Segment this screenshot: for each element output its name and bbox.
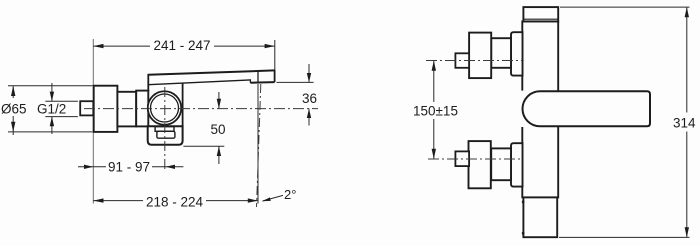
dim 150+-15: [433, 61, 435, 103]
lower body block left view: [148, 126, 183, 144]
text 241-247: [150, 37, 214, 51]
bottom flange: [469, 141, 491, 188]
top flange: [469, 33, 491, 79]
dim G1/2 arrows: [51, 83, 53, 101]
2 degree tilted axis line: [257, 84, 261, 207]
bottom inlet centerline: [428, 158, 522, 160]
inlet nipple G1/2 left view: [80, 101, 93, 115]
svg-text:G1/2: G1/2: [37, 102, 66, 117]
svg-text:241 - 247: 241 - 247: [153, 38, 210, 53]
spout outlet lip step: [249, 79, 251, 83]
spout tip right edge: [274, 70, 276, 83]
dim 36 extension line: [277, 81, 314, 83]
bottom connector: [491, 148, 511, 180]
top boss: [511, 32, 523, 75]
top connector: [491, 38, 511, 68]
svg-text:91 - 97: 91 - 97: [108, 160, 150, 175]
foot tab bottom: [522, 232, 524, 235]
horizontal centerline left view: [84, 108, 318, 110]
bottom foot: [523, 197, 557, 237]
dim O65 dimension line + arrows: [12, 86, 14, 98]
bottom nipple: [455, 151, 469, 166]
dim 50 extension line: [183, 145, 224, 147]
dim 50 arrows: [218, 92, 220, 109]
dim 241-247 arrows: [93, 44, 274, 48]
top cap: [523, 7, 558, 21]
connector sleeve left view: [117, 92, 136, 127]
vertical centerline of handle: [164, 87, 166, 171]
dim 36 arrows: [308, 64, 310, 82]
spout front view: [523, 91, 651, 126]
handle circle outer: [148, 91, 182, 125]
handle circle inner: [151, 94, 179, 122]
top cap lip line: [523, 18, 558, 20]
column body: [522, 21, 558, 197]
dim G1/2 extension lines: [45, 100, 78, 102]
spout tip joint line: [257, 71, 259, 83]
dim O65 extension lines: [8, 85, 93, 87]
top nipple: [455, 53, 469, 68]
flange (escutcheon) left view: [94, 86, 118, 132]
svg-text:314: 314: [673, 116, 696, 131]
svg-text:218 - 224: 218 - 224: [146, 194, 204, 209]
wall plane extension line: [92, 39, 94, 204]
body right edge: [182, 83, 184, 127]
dim 218-224: [93, 200, 143, 202]
svg-text:2°: 2°: [284, 187, 296, 202]
spout root vertical edge: [147, 74, 149, 91]
dim 314 extension lines: [560, 6, 690, 8]
foot tab top: [522, 201, 524, 204]
aerator band 1: [155, 127, 174, 132]
svg-text:36: 36: [302, 91, 317, 106]
svg-text:Ø65: Ø65: [1, 101, 27, 116]
body cap section left view: [136, 91, 148, 127]
dim 241-247 right extension line: [274, 40, 276, 70]
spout/lever blade top edge: [148, 70, 274, 74]
svg-text:150±15: 150±15: [413, 104, 458, 119]
bottom boss: [511, 143, 523, 186]
spout tip extension line: [257, 84, 259, 204]
2 degree leader arrow: [263, 195, 284, 201]
spout underside edge: [148, 80, 250, 85]
hidden column edge mask: [520, 91, 525, 127]
dim 91-97: [78, 166, 106, 168]
top inlet centerline: [426, 60, 522, 62]
dim 314 dimension line: [686, 7, 688, 112]
svg-text:50: 50: [210, 122, 225, 137]
aerator band 2: [157, 131, 175, 138]
spout outlet lip bottom: [250, 81, 274, 84]
dim 241-247 dimension line: [93, 45, 274, 47]
